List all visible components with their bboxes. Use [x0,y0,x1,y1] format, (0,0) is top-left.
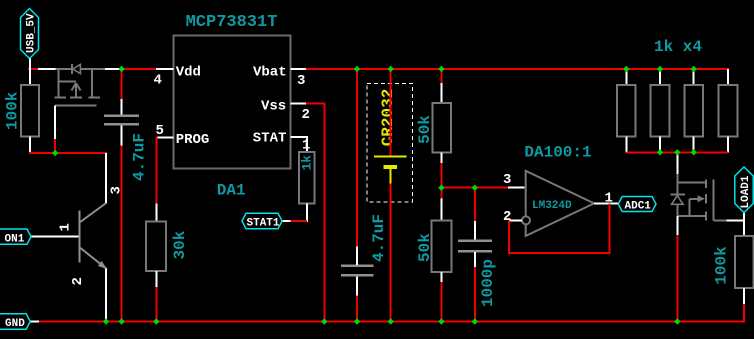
svg-text:1k x4: 1k x4 [654,38,702,56]
wire white 1000p top lead [474,221,476,240]
wire white IC pin1 STAT stub right then down [290,137,308,152]
wire white C2 bottom lead [356,276,358,295]
wire white lead 100k bottom [29,137,31,153]
wire white MOSFET source pin stub left [38,68,56,70]
node top rail x=390.7 [388,66,394,72]
wire red 30k to GND rail [155,287,157,322]
wire white C1 bottom lead [121,125,123,145]
net flag ON1 [0,229,31,246]
wire white 1k bottom lead down then left [282,203,307,222]
node top rail x=626.3 [623,66,629,72]
node top rail x=357 [354,66,360,72]
svg-text:Vbat: Vbat [253,65,287,81]
wire white op-amp pin2 stub [509,219,522,221]
node top rail x=693.7 [691,66,697,72]
op-amp inverting input bubble [522,216,530,224]
wire red 50k upper to divider node [440,163,442,189]
svg-text:1k: 1k [300,155,315,171]
node GND rail x=324.3 [321,318,327,324]
svg-text:Vss: Vss [261,99,286,115]
wire top rail red left stub [28,68,38,70]
wire red 50k lower to GND rail [440,282,442,322]
wire red gate lead to junction [54,139,56,153]
node GND rail x=677.3 [674,318,680,324]
battery G1 plates [374,156,406,183]
net flag ADC1 [618,197,656,213]
node GND rail x=156.3 [153,318,159,324]
wire red C2 to GND rail [356,295,358,321]
svg-text:2: 2 [302,107,310,123]
svg-text:100k: 100k [713,246,731,285]
node top rail x=660 [657,66,663,72]
wire white 50k upper top lead [440,83,442,103]
node GND rail x=441.4 [438,318,444,324]
resistor R 30k body [146,221,166,270]
wire red 1000p to GND rail [474,267,476,322]
svg-text:100k: 100k [4,91,22,130]
wire bottom GND rail red [39,321,745,323]
wire white bank rail down to NMOS drain [676,152,678,174]
wire white MOSFET drain pin stub right [105,68,122,70]
wire red rail down to C2 [356,69,358,246]
wire red PROG down to 30k [155,137,157,204]
wire white gate lead down [54,106,56,140]
wire red Vss right then down to GND rail [306,103,325,321]
node GND rail x=390.7 [388,318,394,324]
wire top rail red right (Vbat to resistor bank) [306,68,729,70]
wire white op-amp output stub [594,202,618,204]
wire white 30k bottom lead [155,271,157,287]
resistor R 1k (bank #3) [684,69,703,152]
wire red divider node down to 1000p [474,188,476,221]
wire red horizontal to transistor collector node [29,152,107,154]
wire white IC pin5 PROG stub [156,137,173,139]
resistor R 1k (bank #4) [719,69,738,152]
wire white Q2 emitter lead down to GND [105,269,107,322]
IC DA1 MCP73831T body [174,36,291,169]
svg-text:DA1: DA1 [217,182,246,200]
wire red feedback up to pin2 [508,220,510,254]
svg-text:2: 2 [503,209,511,225]
resistor R 1k body [299,152,314,203]
wire white 100k right bottom lead [743,288,745,304]
svg-text:MCP73831T: MCP73831T [186,13,278,32]
node bank rail x=677.3 [674,149,680,155]
node divider x=474.8 y=187.7 [472,185,478,191]
wire white C1 top lead [121,99,123,115]
svg-text:ON1: ON1 [5,234,25,246]
wire red from rail junction down to C1 [121,69,123,99]
net flag USB_5V [21,9,39,59]
svg-text:ADC1: ADC1 [625,201,652,213]
wire top rail red mid (junction to IC pin4) [122,68,156,70]
op-amp U DA100:1 triangle [526,171,594,236]
svg-text:4.7uF: 4.7uF [370,214,388,262]
svg-text:4: 4 [154,73,162,89]
node bank rail x=693.7 [691,149,697,155]
svg-text:STAT1: STAT1 [247,218,280,230]
wire white 50k upper bottom lead [440,152,442,163]
wire white 1000p bottom lead [474,252,476,267]
wire white C2 top lead [356,246,358,264]
svg-text:4.7uF: 4.7uF [131,133,149,181]
wire red feedback bottom horizontal [509,252,610,254]
wire white 50k lower bottom lead [440,272,442,282]
node gate junction x=55.2 y=153 [52,150,58,156]
transistor Q2 NPN [79,203,107,270]
wire red rail down to 50k upper [440,69,442,83]
wire red battery to GND rail [390,184,392,322]
svg-text:1000p: 1000p [479,259,497,307]
transistor Q3 arrowhead [698,195,706,202]
wire white lead USB_5V flag down to 100k [29,59,31,86]
resistor R 50k (lower) body [432,220,452,272]
svg-text:USB_5V: USB_5V [26,13,38,53]
wire red 100k right to GND rail [743,304,745,323]
svg-text:GND: GND [5,318,25,330]
resistor R 1k (bank #1) [617,69,636,152]
net flag GND [0,314,30,330]
wire white IC pin2 Vss stub [290,102,306,104]
node GND rail x=106 [103,318,109,324]
svg-text:CR2032: CR2032 [379,89,397,147]
wire red divider node down to 50k lower [440,188,442,199]
wire white gate lead to LOAD1 node [727,213,746,236]
capacitor C2 4.7uF plates [341,266,374,276]
svg-text:LOAD1: LOAD1 [740,175,752,208]
node GND rail x=474.8 [472,318,478,324]
svg-text:30k: 30k [171,230,189,259]
svg-text:DA100:1: DA100:1 [524,144,591,162]
resistor R 1k (bank #2) [651,69,670,152]
node top rail x=121.6 [118,66,124,72]
node GND rail x=121.6 [118,318,124,324]
wire red divider node to op-amp pin3 [441,187,509,189]
battery G1 CR2032 dashed outline [367,83,413,202]
svg-text:2: 2 [70,277,86,285]
transistor Q2 emitter arrowhead [98,261,107,269]
capacitor C3 1000p plates [458,241,492,251]
wire white IC pin3 stub [290,68,306,70]
svg-text:3: 3 [297,73,305,89]
wire white NMOS source down [676,216,678,235]
svg-text:50k: 50k [416,233,434,262]
resistor R 100k (left) body [21,85,39,137]
resistor R 50k (upper) body [433,103,452,152]
wire white Q2 base lead from ON1 [31,236,78,238]
svg-text:STAT: STAT [253,131,287,147]
wire white 30k top lead [155,204,157,222]
wire red C1 to GND rail [121,145,123,321]
svg-text:1: 1 [58,223,74,231]
node bank rail x=660 [657,149,663,155]
svg-text:PROG: PROG [176,132,210,148]
svg-text:3: 3 [109,186,125,194]
capacitor C1 4.7uF plates [104,116,139,125]
node GND rail x=357 [354,318,360,324]
wire red rail down to battery [390,69,392,155]
net flag LOAD1 [735,167,753,213]
wire white Q2 collector lead up [105,153,107,203]
node divider x=441.4 y=187.7 [438,185,444,191]
transistor Q1 PMOS pass switch [55,64,105,106]
wire white IC pin4 stub [156,68,174,70]
wire bottom rail white stub from GND flag [30,321,39,323]
svg-text:LM324D: LM324D [532,200,572,212]
wire red resistor bank bottom rail [626,151,728,153]
node top rail x=441.4 [438,66,444,72]
svg-text:Vdd: Vdd [176,65,201,81]
wire red feedback output down [609,203,611,254]
wire white op-amp pin3 stub [508,187,525,189]
wire white 50k lower top lead [440,198,442,220]
svg-text:3: 3 [503,172,511,188]
wire red 1k to STAT1 flag [291,220,307,222]
net flag STAT1 [242,213,282,229]
transistor Q3 NMOS load switch [671,174,727,221]
wire red NMOS source to GND rail [676,235,678,322]
svg-text:50k: 50k [416,115,434,144]
resistor R 100k (right) body [735,236,754,288]
